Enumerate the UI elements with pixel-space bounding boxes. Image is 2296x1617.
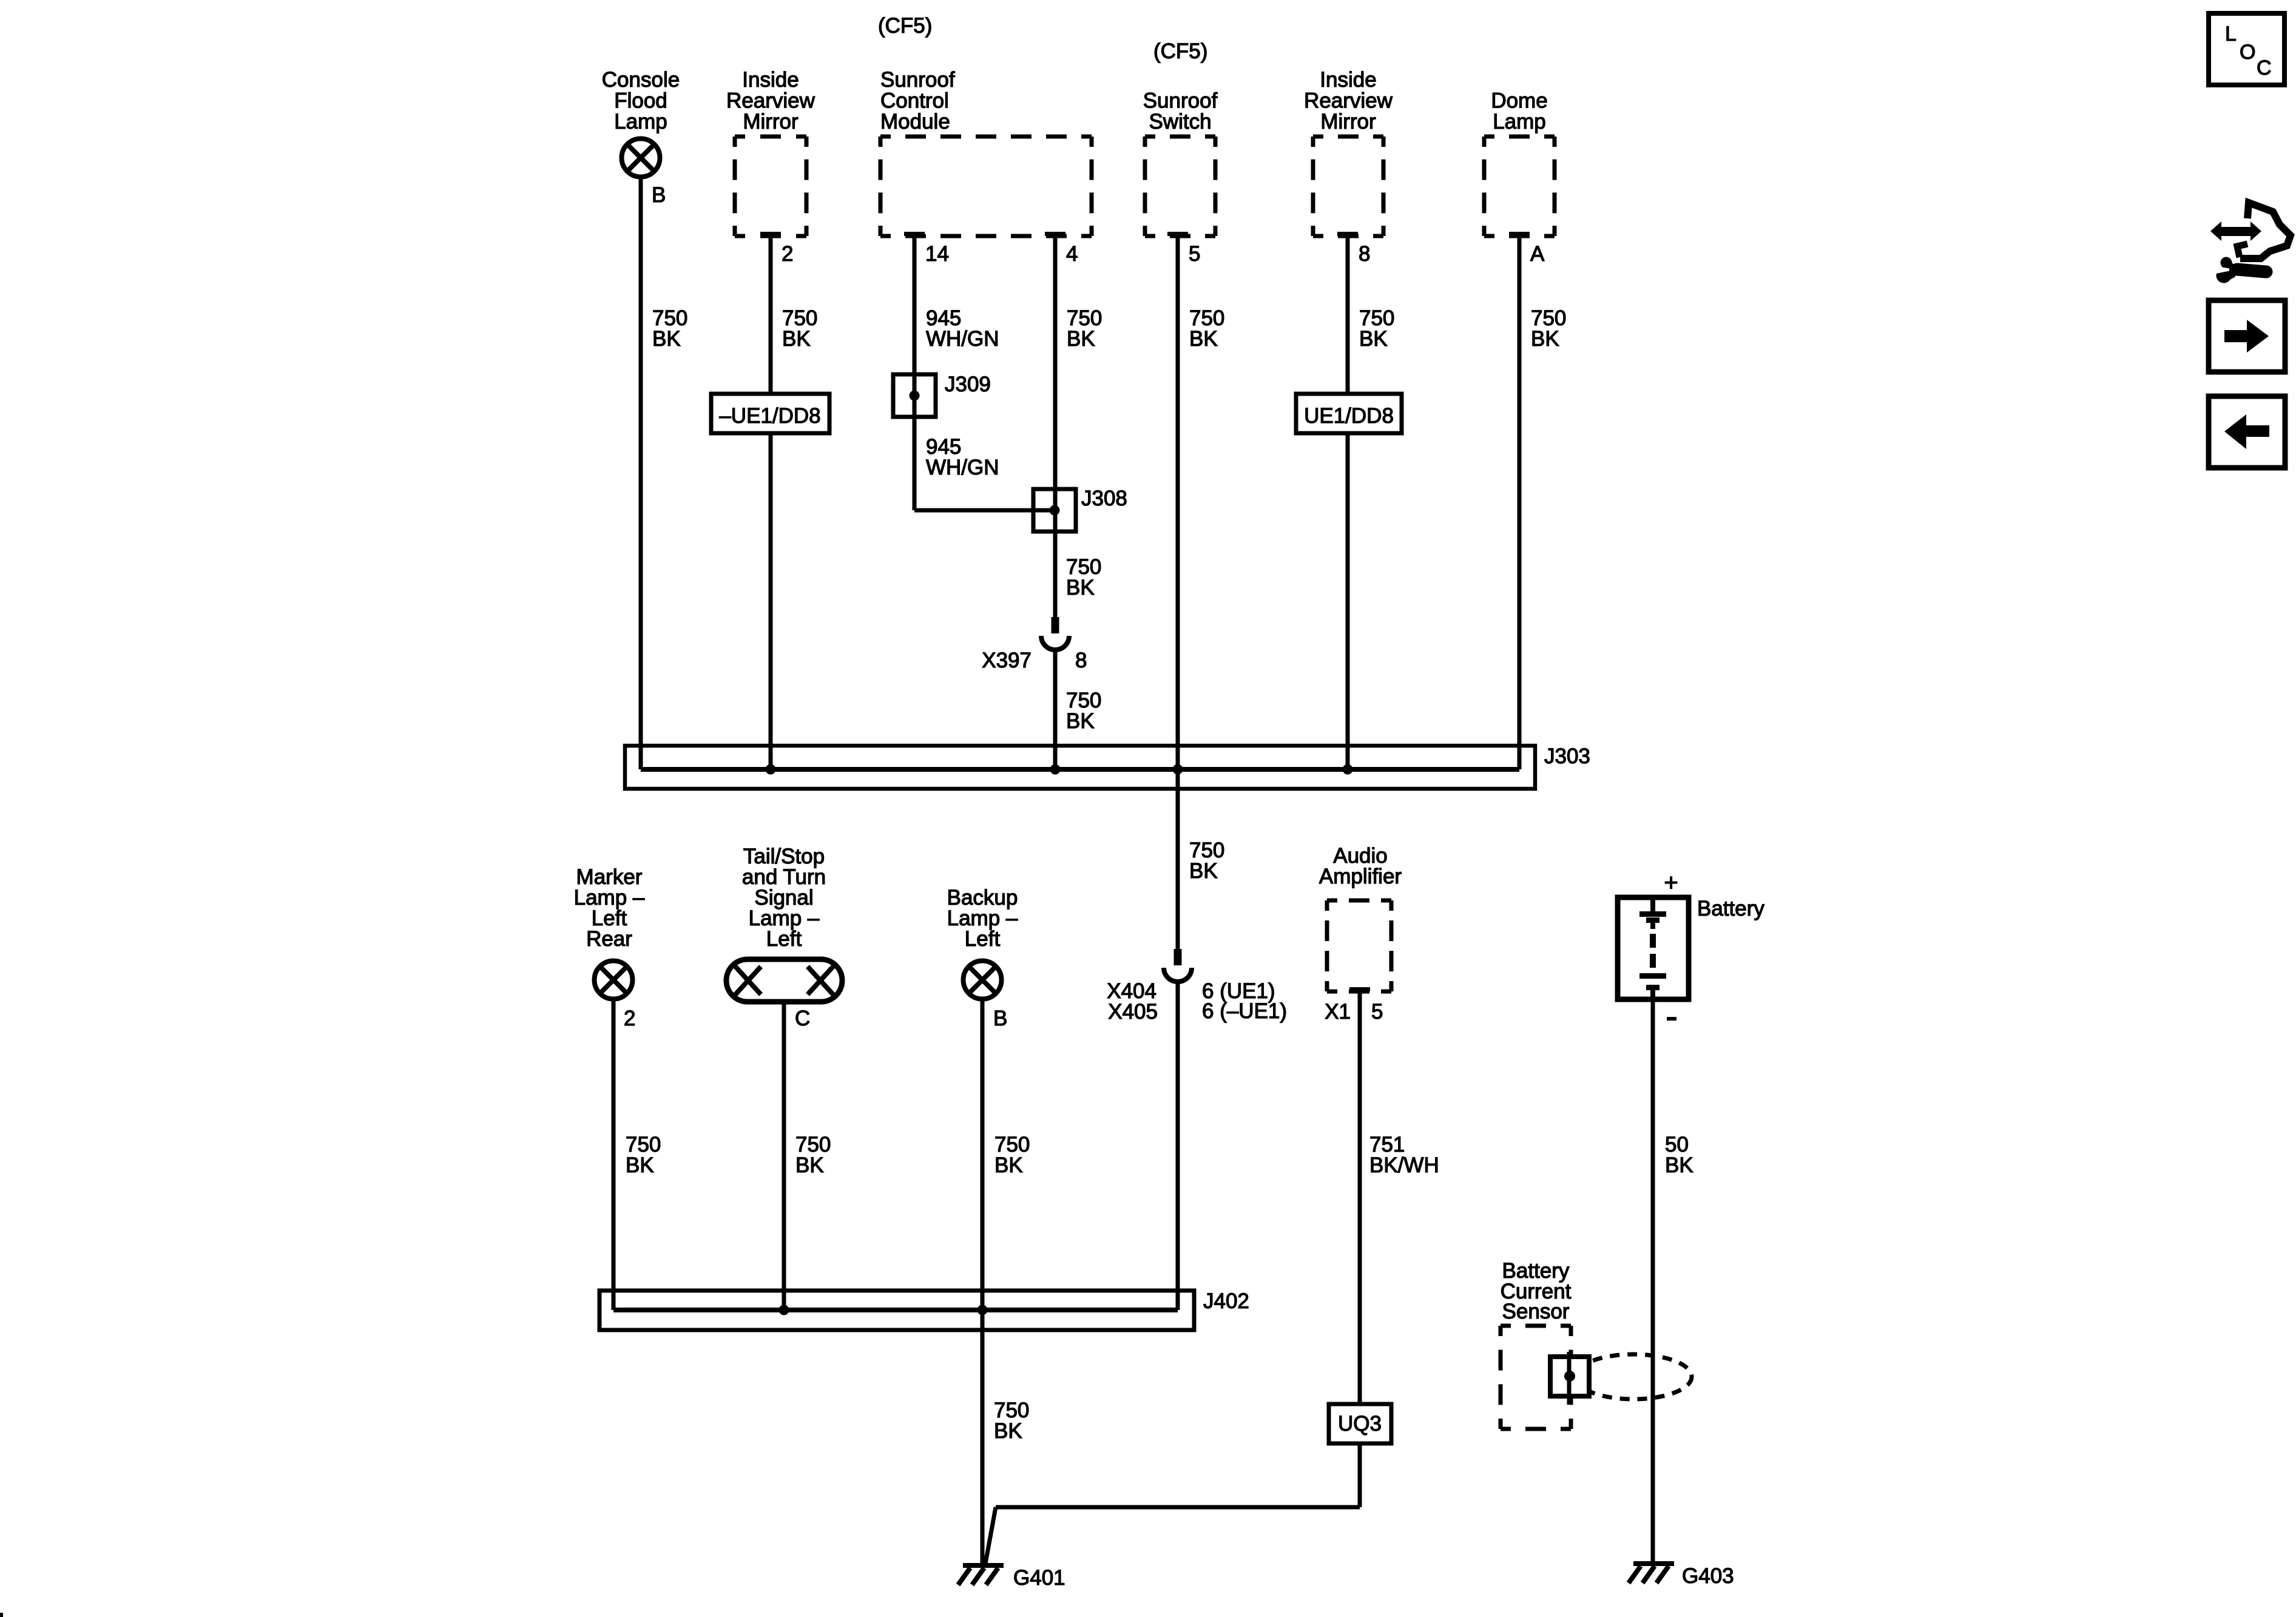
- connector X397: [1052, 617, 1059, 633]
- svg-text:J402: J402: [1203, 1289, 1249, 1313]
- wire continues to J402: [1176, 982, 1180, 1310]
- wire tail 750 BK: [782, 1002, 786, 1310]
- wire battery 50 BK: [1651, 999, 1655, 1564]
- svg-text:Sensor: Sensor: [1502, 1300, 1570, 1323]
- svg-text:J303: J303: [1544, 744, 1590, 768]
- svg-text:BK: BK: [652, 327, 681, 351]
- module Sunroof Control Module dashed box: [880, 137, 1092, 236]
- svg-text:B: B: [652, 183, 666, 207]
- svg-text:8: 8: [1075, 649, 1087, 672]
- battery Battery: [1618, 897, 1689, 999]
- svg-text:UE1/DD8: UE1/DD8: [1304, 404, 1394, 428]
- sensor solid box: [1550, 1357, 1589, 1396]
- ground G403: [1633, 1561, 1674, 1566]
- svg-text:BK: BK: [1067, 327, 1095, 351]
- splice pack J402: [599, 1291, 1194, 1330]
- svg-text:6 (–UE1): 6 (–UE1): [1202, 999, 1287, 1023]
- svg-text:–UE1/DD8: –UE1/DD8: [719, 404, 820, 428]
- svg-text:J308: J308: [1081, 487, 1127, 510]
- corner speck: [0, 1613, 3, 1617]
- svg-text:WH/GN: WH/GN: [926, 456, 999, 479]
- lamp Marker Lamp: [595, 961, 633, 999]
- connector Inside Rearview Mirror (left) dashed box: [735, 137, 806, 236]
- wire mirror 750 BK: [769, 236, 773, 769]
- svg-text:Control: Control: [880, 89, 949, 113]
- svg-text:G401: G401: [1013, 1566, 1065, 1590]
- option box UE1/DD8: [1296, 394, 1402, 433]
- svg-text:BK: BK: [782, 327, 811, 351]
- icon right arrow box: [2209, 300, 2285, 372]
- svg-text:J309: J309: [945, 373, 991, 396]
- svg-text:A: A: [1530, 242, 1545, 266]
- svg-text:L: L: [2225, 22, 2237, 46]
- svg-text:X405: X405: [1108, 1000, 1158, 1024]
- lamp Console Flood Lamp: [622, 139, 660, 177]
- sensor Battery Current Sensor dashed box: [1501, 1326, 1571, 1429]
- svg-text:Module: Module: [880, 110, 950, 133]
- svg-text:BK: BK: [626, 1153, 654, 1177]
- svg-text:BK: BK: [1665, 1153, 1693, 1177]
- svg-text:Mirror: Mirror: [1320, 110, 1376, 133]
- svg-text:Lamp: Lamp: [1493, 110, 1546, 133]
- svg-text:G403: G403: [1682, 1564, 1734, 1588]
- svg-text:Mirror: Mirror: [743, 110, 799, 133]
- icon connector repair (double arrow, harness outline, wrench): [2210, 221, 2261, 241]
- svg-text:BK: BK: [1066, 709, 1095, 733]
- sensor internal wire stub: [1567, 1352, 1572, 1405]
- svg-text:Battery: Battery: [1697, 897, 1764, 920]
- amplifier Audio Amplifier dashed box: [1327, 900, 1391, 991]
- svg-text:Dome: Dome: [1491, 89, 1547, 113]
- svg-text:Left: Left: [766, 927, 802, 951]
- ground G401: [963, 1563, 1004, 1568]
- svg-text:5: 5: [1189, 242, 1200, 266]
- svg-text:Lamp: Lamp: [614, 110, 667, 133]
- wire marker 750 BK: [612, 1002, 616, 1311]
- wire dome 750 BK: [1518, 236, 1522, 769]
- svg-text:(CF5): (CF5): [878, 14, 932, 38]
- svg-text:2: 2: [782, 242, 793, 266]
- svg-text:WH/GN: WH/GN: [926, 327, 999, 351]
- svg-text:Sunroof: Sunroof: [1143, 89, 1218, 113]
- svg-text:Inside: Inside: [1320, 68, 1376, 92]
- battery minus sign: [1667, 1017, 1676, 1021]
- splice pack J303: [625, 746, 1535, 789]
- connector Inside Rearview Mirror (right) dashed box: [1313, 137, 1383, 236]
- svg-text:UQ3: UQ3: [1338, 1412, 1382, 1436]
- wire pin4 750 BK: [1053, 236, 1058, 617]
- splice J309: [893, 374, 936, 417]
- svg-text:Inside: Inside: [742, 68, 799, 92]
- svg-text:C: C: [2257, 56, 2272, 79]
- wire pin14 945 WH/GN: [913, 236, 917, 510]
- svg-text:4: 4: [1066, 242, 1078, 266]
- svg-text:Left: Left: [965, 927, 1001, 951]
- svg-text:BK: BK: [1066, 576, 1095, 599]
- svg-text:2: 2: [624, 1007, 635, 1030]
- lamp Tail/Stop and Turn Signal (stadium with two X): [726, 959, 842, 1002]
- svg-text:Rearview: Rearview: [1304, 89, 1393, 113]
- lamp Dome Lamp dashed box: [1484, 137, 1555, 236]
- wire elbow to J308: [914, 508, 1055, 513]
- wire console flood lamp 750 BK: [639, 180, 643, 770]
- svg-text:5: 5: [1371, 1000, 1383, 1024]
- svg-text:Rearview: Rearview: [726, 89, 815, 113]
- svg-text:14: 14: [925, 242, 949, 266]
- svg-text:BK: BK: [1189, 859, 1218, 883]
- svg-text:Sunroof: Sunroof: [880, 68, 955, 92]
- wire audio to ground: [1358, 1443, 1362, 1507]
- wire sunroof switch 750 BK: [1176, 236, 1180, 949]
- svg-text:BK/WH: BK/WH: [1369, 1153, 1439, 1177]
- wire backup 750 BK: [981, 1002, 985, 1565]
- wire audio 751 BK/WH: [1358, 991, 1362, 1404]
- svg-text:(CF5): (CF5): [1153, 39, 1207, 63]
- icon LOC box: [2209, 13, 2284, 85]
- svg-text:BK: BK: [994, 1153, 1023, 1177]
- svg-text:X1: X1: [1325, 1000, 1351, 1024]
- svg-text:Rear: Rear: [586, 927, 632, 951]
- svg-text:8: 8: [1359, 242, 1370, 266]
- wire mirror2 750 BK: [1346, 236, 1350, 769]
- svg-text:Amplifier: Amplifier: [1319, 865, 1402, 888]
- svg-text:BK: BK: [795, 1153, 824, 1177]
- switch Sunroof Switch dashed box: [1145, 137, 1215, 236]
- svg-text:Console: Console: [602, 68, 680, 92]
- lamp Backup Lamp: [964, 961, 1002, 999]
- svg-text:B: B: [993, 1007, 1007, 1030]
- svg-text:BK: BK: [1531, 327, 1559, 351]
- svg-text:O: O: [2240, 41, 2255, 64]
- option box -UE1/DD8: [711, 394, 829, 433]
- icon left arrow box: [2209, 396, 2285, 468]
- svg-text:C: C: [795, 1007, 810, 1030]
- sensor pickup dashed ellipse: [1575, 1354, 1692, 1399]
- splice J308: [1033, 489, 1076, 532]
- svg-text:BK: BK: [994, 1419, 1022, 1443]
- connector X404/X405: [1174, 949, 1182, 965]
- svg-text:BK: BK: [1359, 327, 1388, 351]
- option box UQ3: [1329, 1404, 1391, 1443]
- svg-text:Switch: Switch: [1149, 110, 1211, 133]
- svg-text:BK: BK: [1189, 327, 1218, 351]
- svg-text:+: +: [1664, 869, 1678, 896]
- svg-text:Flood: Flood: [614, 89, 667, 113]
- svg-text:X397: X397: [982, 649, 1032, 672]
